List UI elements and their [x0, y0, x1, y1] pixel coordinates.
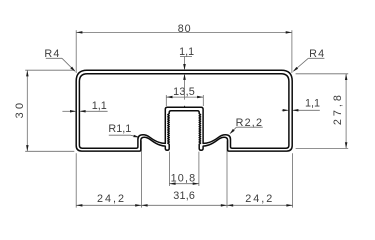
svg-text:1,1: 1,1 [179, 46, 194, 58]
bottom dims: extension line at profile right [292, 153, 294, 207]
dimension 10.8: extension line right [198, 152, 200, 186]
dimension 24.2 left: dimension line [76, 204, 141, 206]
dimension 27.8 right: dimension line [345, 74, 347, 149]
dimension 30 left: arrow top [26, 70, 29, 76]
svg-text:24,2: 24,2 [97, 193, 126, 205]
svg-text:R4: R4 [309, 48, 325, 60]
callout 1.1 top wall: leader line upper [184, 57, 186, 70]
callout 1.1 top wall: leader tail below [184, 75, 186, 100]
leader R4 right: diagonal line [294, 58, 309, 71]
callout 1.1 top wall: label underline [180, 56, 192, 58]
callout 1.1 right wall: left arrow line [282, 109, 288, 111]
dimension 24.2 right: arrow right [286, 204, 292, 207]
dimension 10.8: dimension line [169, 183, 199, 185]
dimension 10.8: extension line left [168, 152, 170, 186]
leader R1.1: arrowhead [133, 135, 139, 138]
leader R4 left: underline [46, 57, 62, 59]
dimension 10.8: arrow right [193, 182, 199, 185]
dimension 30 left: dimension line [26, 70, 28, 151]
svg-text:31,6: 31,6 [173, 190, 195, 202]
callout 1.1 left wall: left arrow line [62, 110, 75, 112]
svg-text:R2,2: R2,2 [236, 117, 264, 129]
dimension 31.6: dimension line [141, 204, 227, 206]
dimension 80 top: dimension line [76, 31, 292, 33]
callout 1.1 left wall: right tail line [81, 110, 108, 112]
dimension 13.5: arrow left [166, 96, 172, 99]
dimension 80 top: extension line left [75, 30, 77, 73]
svg-text:30: 30 [14, 100, 26, 119]
profile outer contour with screw-channel slot [76, 70, 292, 151]
dimension 80 top: arrow right [286, 31, 292, 33]
svg-text:1,1: 1,1 [92, 100, 107, 112]
dimension 30 left: arrow bottom [26, 145, 29, 151]
leader R1.1: underline [109, 134, 131, 136]
svg-text:10,8: 10,8 [171, 172, 197, 184]
dimension 27.8 right: extension line top [296, 73, 349, 75]
callout 1.1 left wall: arrow right to outer line [70, 110, 76, 113]
dimension 10.8: arrow left [169, 182, 175, 185]
dimension 13.5: dimension line [166, 96, 203, 98]
callout 1.1 right wall: arrow left to outer line [292, 109, 298, 112]
leader R4 right: underline [308, 57, 324, 59]
dimension 31.6: arrow left [141, 204, 147, 207]
dimension 80 top: extension line right [291, 30, 293, 73]
leader R4 left: arrowhead at corner [70, 67, 75, 72]
dimension 13.5: extension line left [165, 95, 167, 106]
svg-text:R1,1: R1,1 [108, 123, 131, 135]
dimension 24.2 left: arrow right [135, 204, 141, 207]
dimension 24.2 right: arrow left [227, 204, 233, 207]
dimension 27.8 right: arrow top [345, 74, 348, 80]
callout 1.1 top wall: arrow down to outer line [183, 64, 186, 70]
dimension 13.5: arrow right [197, 96, 203, 99]
dimension 30 left: extension line bottom [25, 150, 74, 152]
dimension 80 top: arrow left [76, 31, 82, 33]
dimension 24.2 left: arrow left [76, 204, 82, 207]
profile inner (chamber) contour [79, 74, 289, 149]
leader R4 left: diagonal line [62, 58, 75, 71]
leader R4 right: arrowhead at corner [293, 67, 299, 72]
svg-text:27,8: 27,8 [332, 92, 344, 125]
boss top centre tick [184, 106, 186, 108]
svg-text:24,2: 24,2 [245, 193, 274, 205]
leader R2.2: underline [236, 126, 262, 128]
bottom dims: extension line at right recess edge [226, 141, 228, 208]
leader R2.2: diagonal line [231, 127, 237, 133]
callout 1.1 top wall: arrow up to inner line [183, 74, 186, 80]
svg-text:R4: R4 [44, 48, 60, 60]
leader R1.1: diagonal line [130, 135, 138, 137]
dimension 27.8 right: arrow bottom [345, 142, 348, 148]
bottom dims: extension line at profile left [75, 153, 77, 207]
callout 1.1 right wall: arrow right to inner line [283, 109, 289, 112]
callout 1.1 left wall: arrow left to inner line [79, 110, 85, 113]
dimension 27.8 right: extension line bottom [296, 147, 349, 149]
dimension 30 left: extension line top [25, 69, 74, 71]
leader R2.2: arrowhead [229, 129, 234, 134]
dimension 24.2 right: dimension line [227, 204, 293, 206]
dimension 13.5: extension line right [202, 95, 204, 106]
dimension 31.6: arrow right [221, 204, 227, 207]
svg-text:1,1: 1,1 [305, 98, 320, 110]
callout 1.1 right wall: right tail line [293, 109, 320, 111]
svg-text:80: 80 [178, 23, 192, 35]
bottom dims: extension line at left recess edge [140, 141, 142, 208]
